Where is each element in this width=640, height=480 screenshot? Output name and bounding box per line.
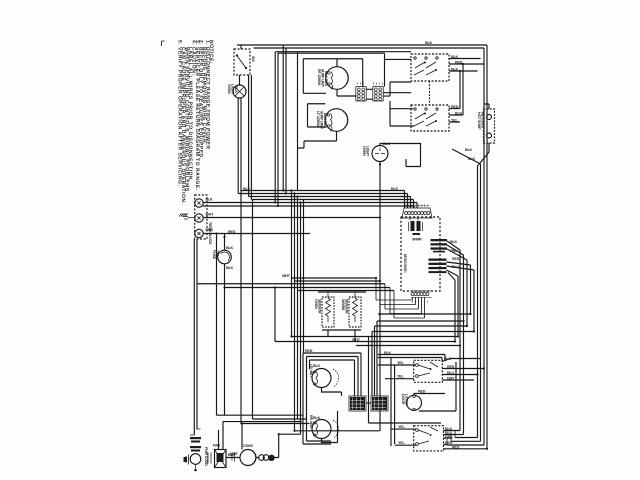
capacitor pair <box>259 455 265 461</box>
nested L runs to bottom section <box>372 314 474 332</box>
svg-text:5. VERIFY PROPER OPERATION AFT: 5. VERIFY PROPER OPERATION AFTER SERVICI… <box>177 40 183 186</box>
terminal L2 <box>195 229 203 237</box>
wire fuse leads <box>224 234 226 416</box>
bake element box mid <box>307 357 359 442</box>
bundle H1 staircase into CN1 <box>405 191 418 209</box>
svg-text:BLK: BLK <box>234 86 238 94</box>
wire neutral double rail <box>194 239 197 435</box>
bundle H2 staircase <box>376 278 394 318</box>
CN2 connector row <box>411 290 431 292</box>
right rail 1 <box>486 45 488 449</box>
surface switch 1 (dashed) <box>411 54 449 81</box>
svg-text:BLK: BLK <box>313 364 321 368</box>
label relay wires <box>450 240 460 269</box>
wire broil switch left <box>378 365 416 379</box>
label switch2 wires <box>451 105 463 123</box>
oven light lamp <box>233 85 246 98</box>
svg-text:OVEN: OVEN <box>227 84 231 94</box>
svg-text:RED: RED <box>228 230 236 234</box>
wire terminal3 run <box>204 233 311 235</box>
clock circle <box>372 146 388 162</box>
svg-text:OVEN: OVEN <box>314 299 318 309</box>
wire burner RF bottom to connector <box>337 59 357 96</box>
label bake wires <box>445 427 460 449</box>
wire clock bottom rail <box>379 162 381 432</box>
svg-text:BLK RED: BLK RED <box>323 113 327 129</box>
wire plug riser to switch1 <box>383 53 411 96</box>
svg-text:BLK: BLK <box>226 266 234 270</box>
broil switch (dashed) <box>414 360 443 382</box>
label burner LF <box>316 111 327 130</box>
ground symbol <box>179 214 195 219</box>
svg-text:BLU: BLU <box>447 371 455 375</box>
svg-text:ORN: ORN <box>450 249 458 253</box>
wire plug to switch lines <box>383 59 414 126</box>
svg-text:CONV: CONV <box>243 444 254 448</box>
svg-text:YEL: YEL <box>398 441 406 445</box>
label yel <box>397 361 405 379</box>
wire CN2 stubs <box>413 297 425 318</box>
svg-text:BLK: BLK <box>384 351 392 355</box>
cross rails pair <box>275 337 458 342</box>
svg-text:XFMR: XFMR <box>412 238 422 242</box>
burner LR <box>312 369 331 388</box>
label fuse <box>212 246 234 270</box>
relay 1 <box>431 239 448 252</box>
bundle H2 under-board runs <box>376 300 425 318</box>
svg-text:YEL: YEL <box>398 425 406 429</box>
label blk diag <box>465 148 476 161</box>
bottom-left corner wires <box>217 200 310 424</box>
svg-text:BLK: BLK <box>468 157 476 161</box>
oven light switch (dashed box) <box>234 49 250 75</box>
cross rail 3 <box>356 345 460 347</box>
label power cord <box>204 447 208 466</box>
extra wire labels <box>228 41 433 355</box>
burner leads <box>322 388 342 443</box>
label oven light sw <box>251 56 255 62</box>
svg-text:BLU: BLU <box>452 265 460 269</box>
svg-text:HOT SURF: HOT SURF <box>477 112 481 130</box>
wire terminal2 run <box>204 217 380 219</box>
power terminal block (dashed) <box>195 195 207 239</box>
sensor resistor 1 (dashed box) <box>322 297 334 327</box>
surface burner LF <box>325 109 348 132</box>
svg-text:RED: RED <box>451 105 459 109</box>
svg-text:BLK: BLK <box>206 198 214 202</box>
svg-text:DOOR: DOOR <box>401 394 405 405</box>
bake switch (dashed) <box>414 426 444 451</box>
wire indicator leads <box>452 104 489 166</box>
oven sensor rail top <box>318 291 366 293</box>
svg-text:LIGHT: LIGHT <box>366 146 370 157</box>
svg-text:SENSOR: SENSOR <box>345 299 349 314</box>
oven section top double <box>378 355 445 362</box>
svg-text:PWR CORD: PWR CORD <box>204 447 208 466</box>
svg-text:BLK: BLK <box>313 416 321 420</box>
label burner LR <box>309 364 321 378</box>
bundle X verticals <box>292 191 304 435</box>
wire between connectors <box>366 402 371 404</box>
pin ticks P1 <box>358 83 383 85</box>
label yel2 <box>398 425 406 445</box>
terminal L1 <box>195 199 203 207</box>
label sensor2 <box>341 299 349 314</box>
latch motor <box>407 395 422 410</box>
svg-text:BLK: BLK <box>450 240 458 244</box>
wire drop to oven light <box>240 45 242 85</box>
wire burner LF top stub <box>308 104 326 127</box>
label terminals <box>206 198 215 246</box>
svg-text:MTR: MTR <box>230 452 238 456</box>
svg-text:YEL: YEL <box>397 375 405 379</box>
nested L verticals down <box>369 321 442 423</box>
svg-text:BLK: BLK <box>243 187 251 191</box>
wire terminal1 runs <box>203 203 417 207</box>
right rail 3 <box>480 164 482 441</box>
surface unit inner box left <box>303 59 326 94</box>
wire latch motor <box>414 362 456 411</box>
svg-text:GRY: GRY <box>445 435 453 439</box>
svg-text:SURF UNIT: SURF UNIT <box>321 69 325 88</box>
svg-text:BLK: BLK <box>226 246 234 250</box>
label switch1 wires <box>451 55 463 72</box>
fuse circle <box>218 250 232 264</box>
fan verticals to lower runs <box>455 250 474 435</box>
wire switch2 outputs <box>449 64 463 122</box>
sensor bottom rail <box>322 330 361 342</box>
wire bake switch right <box>444 431 488 449</box>
label burner RR <box>309 415 321 430</box>
svg-text:BLK: BLK <box>451 68 459 72</box>
right rail 4 <box>477 166 479 438</box>
label conv motor <box>230 444 254 456</box>
label transformer <box>412 238 422 242</box>
CN1 connector row <box>402 208 432 218</box>
svg-text:YEL: YEL <box>397 361 405 365</box>
plug P1 <box>373 87 383 102</box>
bundle H1 lines <box>238 191 413 200</box>
svg-text:GRY: GRY <box>447 377 455 381</box>
pin number ticks CN2 <box>413 301 428 303</box>
svg-text:RED: RED <box>447 365 455 369</box>
svg-text:SW: SW <box>251 56 255 62</box>
svg-text:FAN: FAN <box>213 444 220 448</box>
svg-text:OVEN: OVEN <box>362 146 366 156</box>
transformer block <box>411 221 421 235</box>
label fan box <box>213 444 236 458</box>
notices text block <box>177 40 215 204</box>
svg-text:RF 1250W: RF 1250W <box>317 69 321 86</box>
svg-text:BLK: BLK <box>455 112 463 116</box>
label burner RF <box>317 69 328 88</box>
svg-text:FUSE: FUSE <box>212 250 216 260</box>
svg-text:RED: RED <box>305 349 313 353</box>
wire drop x275 <box>274 288 276 342</box>
wire burner LF bottom <box>298 132 337 149</box>
wire rails bottom corners <box>447 438 484 446</box>
relay fan wires <box>447 241 475 280</box>
label sensor1 <box>314 299 322 314</box>
bake element box outer <box>303 353 361 444</box>
cooling fan relay box <box>215 450 227 468</box>
wire terminal3 drop <box>216 234 218 416</box>
bundle H2 lines <box>197 278 395 291</box>
wire C1-P1 links <box>366 89 373 99</box>
wire switch1 outputs <box>449 59 484 72</box>
svg-text:RED: RED <box>452 257 460 261</box>
svg-text:BLK RED: BLK RED <box>324 71 328 87</box>
surface burner RF <box>326 67 349 90</box>
sensor resistor 2 (dashed box) <box>349 297 361 327</box>
wire pair c down <box>275 52 278 206</box>
pin number ticks CN1 <box>406 205 428 207</box>
svg-text:BLK: BLK <box>391 187 399 191</box>
svg-text:SENSOR: SENSOR <box>318 299 322 314</box>
wire bake switch left <box>391 429 417 445</box>
wire pair d drops from top rails <box>283 45 286 194</box>
wire top rail L4 <box>278 52 385 54</box>
svg-text:RED: RED <box>455 61 463 65</box>
cooling fan feeds <box>219 422 301 458</box>
surface switch 2 (dashed) <box>411 105 449 131</box>
power cord stack <box>190 429 201 435</box>
svg-text:BLK: BLK <box>465 148 473 152</box>
svg-text:LATCH: LATCH <box>405 394 409 406</box>
wire switch output pair down <box>249 75 252 200</box>
svg-text:WHT: WHT <box>352 338 361 342</box>
wire top rail L2 <box>254 47 485 49</box>
wire top rail L1 <box>237 44 487 46</box>
label broil wires <box>444 357 455 381</box>
label oven light <box>227 84 238 95</box>
control board dashed outline <box>401 217 440 291</box>
wire motor link <box>226 457 259 459</box>
relay 2 <box>429 259 447 274</box>
warm indicator (dashed) <box>484 109 495 143</box>
wire broil switch right <box>442 359 484 381</box>
convection motor <box>240 450 256 466</box>
surface unit box left rail <box>297 52 299 190</box>
svg-text:YEL: YEL <box>451 119 459 123</box>
wire mid-bottom link <box>295 430 380 432</box>
wire clock top hook <box>380 144 421 167</box>
right rail 2 <box>483 48 485 445</box>
label control board <box>403 254 407 273</box>
burner RR <box>312 420 331 439</box>
svg-text:RED: RED <box>452 445 460 449</box>
registration tick <box>162 41 165 46</box>
svg-text:RED: RED <box>418 390 426 394</box>
label warm indicator <box>477 112 485 130</box>
wire top rail L3 <box>276 51 412 53</box>
cord grommet <box>190 454 201 465</box>
connector D2 <box>371 396 388 411</box>
svg-text:BLK: BLK <box>451 55 459 59</box>
label latch motor <box>401 390 426 406</box>
label clock <box>362 142 391 157</box>
dashed link between switches <box>429 81 431 105</box>
oven section left verticals <box>391 358 395 447</box>
surface unit inner box top <box>303 59 362 87</box>
svg-text:LF 1250W: LF 1250W <box>316 111 320 127</box>
pin labels CN1 <box>405 205 429 207</box>
svg-text:WHT: WHT <box>282 274 291 278</box>
bake element box inner <box>310 360 355 396</box>
svg-text:BLK: BLK <box>425 41 433 45</box>
svg-text:MTAS 5V5C: MTAS 5V5C <box>403 254 407 273</box>
svg-text:WHT: WHT <box>206 213 215 217</box>
svg-text:LIGHT: LIGHT <box>231 84 235 95</box>
connector D1 <box>349 396 366 411</box>
svg-text:BLK: BLK <box>444 357 452 361</box>
connector C1 <box>356 87 366 102</box>
svg-text:WARM: WARM <box>341 299 345 310</box>
wire oven light pair down <box>238 98 241 424</box>
terminal N <box>195 214 203 222</box>
